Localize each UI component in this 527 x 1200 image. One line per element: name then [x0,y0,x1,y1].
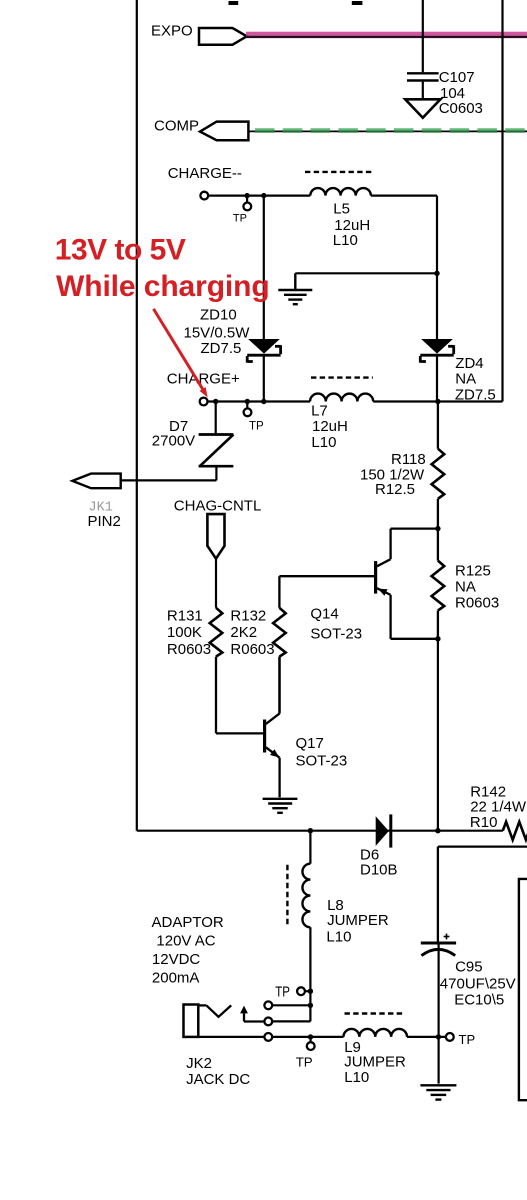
transistor Q14 (PNP SOT-23) [376,529,438,639]
svg-text:CHARGE--: CHARGE-- [168,165,242,182]
diode D6 [376,816,389,846]
module boundary left edge [136,0,138,831]
svg-text:L10: L10 [311,434,336,451]
svg-text:While charging: While charging [56,270,270,303]
svg-text:R125: R125 [455,562,491,579]
svg-text:L5: L5 [333,201,350,218]
inductor L8 [302,864,310,928]
junction TP (jack sleeve) [308,1034,313,1039]
pin circle jack sleeve [264,1033,272,1041]
wire CHAG-CNTL to R131 [215,559,217,608]
ground (below L5) [278,273,312,304]
svg-text:R10: R10 [470,814,498,831]
svg-text:R12.5: R12.5 [375,481,415,498]
resistor R118 [432,402,445,529]
zener diode ZD4 [420,339,453,402]
junction D7 branch [213,399,218,404]
junction Q14 emitter rail [435,636,440,641]
resistor R125 [432,529,445,639]
svg-text:L10: L10 [344,1069,369,1086]
wire right rail Q14 emitter to bottom [437,639,439,831]
junction Q14 collector rail [435,526,440,531]
junction on ZD4 branch [434,271,439,276]
resistor R131 [210,608,264,734]
junction TP (adaptor in) [308,989,313,994]
terminal CHARGE-- [200,192,208,200]
junction ZD10 bottom [261,399,266,404]
ground (Q17 emitter) [263,799,298,813]
svg-text:R131: R131 [167,608,203,625]
port arrow CHAG-CNTL (down) [207,514,224,559]
wire CHARGE+ net [208,400,503,402]
svg-text:L10: L10 [333,232,358,249]
svg-text:JK2: JK2 [186,1055,212,1072]
svg-text:ZD7.5: ZD7.5 [201,340,242,357]
svg-text:L7: L7 [311,403,328,420]
wire L8 to jack [309,927,311,1021]
ground (C95) [420,1085,456,1099]
cut-off symbol mark top left [229,1,239,5]
wire CHARGE-- net [208,196,437,339]
svg-text:200mA: 200mA [152,969,200,986]
jack switch contact [198,1005,264,1021]
svg-text:PIN2: PIN2 [88,513,121,530]
svg-text:TP: TP [275,984,290,1001]
wire L9 to C95 node [407,1036,446,1038]
junction L8 branch [308,828,313,833]
svg-text:13V to 5V: 13V to 5V [55,233,186,266]
block boundary (bottom right box top edge) [438,847,527,942]
junction jack pin1 [308,1003,313,1008]
inductor L7 [310,394,373,402]
svg-text:TP: TP [459,1032,476,1047]
junction ZD10 branch [261,193,266,198]
wire jack pin2 [272,1020,310,1022]
wire JK1 to D7 [121,479,217,481]
resistor R132 [273,576,376,713]
svg-text:TP: TP [233,213,247,225]
junction ZD4 bottom / R118 top [435,399,440,404]
svg-text:CHAG-CNTL: CHAG-CNTL [174,497,262,514]
svg-text:JUMPER: JUMPER [327,912,389,929]
wire net EXPO (magenta highlighted) [246,32,527,36]
junction TP (C95) [436,1034,441,1039]
svg-text:12VDC: 12VDC [152,951,201,968]
wire mid horizontal to ground [295,272,437,274]
svg-text:NA: NA [455,370,476,387]
power ground triangle (C107) [405,99,440,118]
svg-text:ZD4: ZD4 [455,355,483,372]
junction bottom rail [435,828,440,833]
svg-text:470UF\25V: 470UF\25V [440,976,516,993]
svg-text:Q14: Q14 [310,606,338,623]
svg-text:L10: L10 [326,928,351,945]
svg-text:2700V: 2700V [152,433,195,450]
port arrow JK1 [72,474,120,489]
svg-text:ZD10: ZD10 [200,307,237,324]
pin circle jack pin2 [264,1018,272,1026]
svg-text:SOT-23: SOT-23 [296,752,348,769]
svg-text:C0603: C0603 [439,100,483,117]
svg-text:TP: TP [296,1054,313,1069]
svg-text:120V AC: 120V AC [156,932,215,949]
svg-text:12uH: 12uH [312,418,348,435]
svg-text:R0603: R0603 [167,641,211,658]
svg-text:NA: NA [455,578,476,595]
svg-text:EC10\5: EC10\5 [454,991,504,1008]
svg-text:D10B: D10B [360,861,398,878]
wire ZD10 branch vertical [263,196,265,339]
wire C95 bottom [438,944,440,1084]
inductor L5 [310,188,371,196]
wire C107 branch from top [422,0,424,72]
svg-text:15V/0.5W: 15V/0.5W [184,324,251,341]
inductor L9 [344,1029,408,1037]
capacitor C95 (polarized) [421,943,456,956]
svg-text:JUMPER: JUMPER [344,1053,406,1070]
wire L8 branch [309,831,311,864]
svg-text:2K2: 2K2 [230,624,257,641]
transistor Q17 (NPN SOT-23) [265,657,280,798]
svg-text:100K: 100K [167,624,202,641]
port arrow EXPO [199,28,247,45]
svg-text:SOT-23: SOT-23 [310,626,362,643]
svg-text:TP: TP [249,421,264,433]
svg-text:COMP: COMP [154,118,199,135]
svg-text:C95: C95 [455,959,483,976]
svg-text:R0603: R0603 [230,641,274,658]
svg-text:C107: C107 [439,69,475,86]
pin circle jack pin1 [264,1001,272,1009]
zener diode ZD10 [247,339,280,402]
annotation red arrow [154,309,204,391]
surge arrester D7 [199,402,234,481]
jack tip arrow [240,1006,248,1014]
svg-text:R132: R132 [230,608,266,625]
svg-text:R118: R118 [391,451,426,468]
wire net COMP (green dashed highlighted) [249,130,527,132]
junction TP stub (CHARGE--) [244,193,249,198]
svg-text:JACK DC: JACK DC [186,1071,250,1088]
block boundary (bottom right inner box) [519,879,527,1100]
resistor R142 [503,822,527,840]
terminal CHARGE+ [200,398,208,406]
junction TP stub (CHARGE+) [245,399,250,404]
svg-text:Q17: Q17 [296,735,324,752]
connector JK2 jack body [184,1005,199,1037]
svg-text:EXPO: EXPO [151,22,193,39]
wire jack sleeve to L9 [198,1036,264,1038]
port arrow COMP [200,122,248,141]
capacitor C107 [407,73,439,99]
wire bottom rail of module [137,830,503,832]
svg-text:22 1/4W: 22 1/4W [470,799,527,816]
cut-off symbol mark top right [352,1,363,5]
svg-text:R0603: R0603 [455,595,499,612]
svg-text:ADAPTOR: ADAPTOR [152,914,224,931]
wire right vertical rail (top) [501,0,503,402]
svg-text:CHARGE+: CHARGE+ [167,370,240,387]
